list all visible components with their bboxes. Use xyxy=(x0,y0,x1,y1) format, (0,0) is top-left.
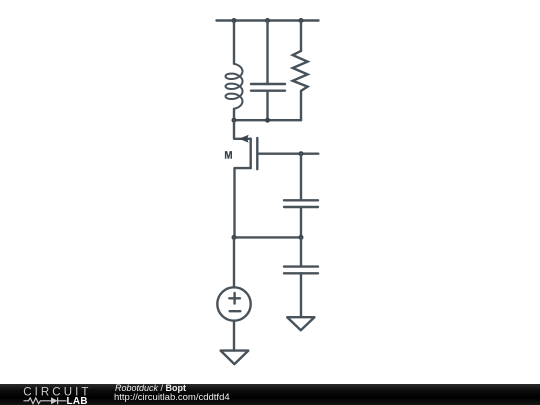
node junction dot gate xyxy=(299,151,304,156)
footer bar xyxy=(0,384,540,405)
wire from capacitor C1 to tank bottom rail xyxy=(266,91,268,121)
wire from top rail to resistor R1 xyxy=(300,21,302,51)
capacitor C1 bottom plate xyxy=(251,89,285,91)
wire capacitor C2 to lower rail xyxy=(300,207,302,237)
svg-text:LAB: LAB xyxy=(67,396,88,405)
capacitor C3 bottom plate xyxy=(284,272,318,274)
wire from top rail to capacitor C1 xyxy=(266,21,268,85)
wire lower rail xyxy=(234,236,301,238)
wire from inductor to tank bottom rail xyxy=(233,109,235,120)
wire voltage source V1 to ground xyxy=(233,321,235,351)
voltage source V1 plus sign xyxy=(229,293,240,304)
wire capacitor C3 to ground xyxy=(300,273,302,317)
node junction dot tank-bottom-left xyxy=(232,118,237,123)
CircuitLab logo xyxy=(0,384,110,405)
transistor M channel bar xyxy=(249,139,251,168)
footer info text xyxy=(115,383,230,404)
voltage source V1 circle xyxy=(217,287,250,320)
transistor M arrow xyxy=(239,135,249,143)
wire from top rail to inductor xyxy=(233,21,235,64)
wire gate lead of M xyxy=(258,152,318,154)
wire source lead of M (arrow) xyxy=(234,120,251,139)
wire from resistor R1 to tank bottom rail xyxy=(300,91,302,120)
wire lower rail to capacitor C3 xyxy=(300,237,302,266)
node junction dot tank-bottom-middle xyxy=(265,118,270,123)
capacitor C1 top plate xyxy=(251,83,285,85)
voltage source V1 minus sign xyxy=(230,310,241,312)
wire top rail xyxy=(217,19,319,21)
label M xyxy=(225,151,232,159)
resistor R1 zigzag xyxy=(293,51,308,91)
node junction dot lower-rail-left xyxy=(232,235,237,240)
node junction dot top-right xyxy=(299,18,304,23)
inductor L1 coil xyxy=(226,64,243,109)
wire lower rail to voltage source V1 xyxy=(233,237,235,287)
transistor M gate bar xyxy=(256,138,258,169)
wire tank bottom rail xyxy=(234,119,301,121)
node junction dot top-left xyxy=(232,18,237,23)
capacitor C2 bottom plate xyxy=(284,206,318,208)
wire drain lead of M xyxy=(235,168,251,237)
capacitor C3 top plate xyxy=(284,265,318,267)
ground symbol below C3 xyxy=(287,317,314,330)
ground symbol below V1 xyxy=(221,351,249,365)
node junction dot lower-rail-right xyxy=(299,235,304,240)
node junction dot top-middle xyxy=(265,18,270,23)
wire gate node to capacitor C2 xyxy=(300,154,302,201)
capacitor C2 top plate xyxy=(284,199,318,201)
